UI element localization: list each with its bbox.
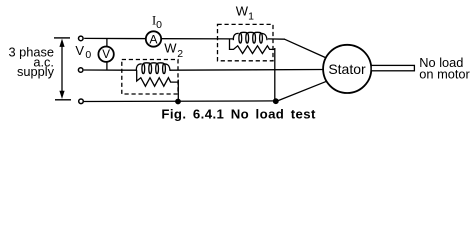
supply extent arrow top bar [54, 37, 70, 39]
W2 pressure coil resistor [137, 70, 179, 86]
wire: middle line from W2 coil to stator [170, 69, 324, 72]
W1 pressure coil resistor [230, 39, 275, 54]
wattmeter W2 dashed box [122, 60, 178, 95]
rotor shaft [371, 65, 414, 70]
wattmeter W1 dashed box [218, 24, 274, 60]
junction dot W2-bottom [175, 99, 181, 105]
wire: top diagonal into stator [285, 39, 328, 58]
W2 current coil [136, 63, 170, 74]
terminal top (R phase) [79, 36, 84, 41]
svg-text:on motor: on motor [419, 67, 470, 82]
W1 pressure coil drop wire [274, 48, 276, 101]
wire: top line from terminal to W1 coil [84, 37, 233, 40]
W1 current coil [233, 32, 267, 43]
wire: top line from W1 coil to bend [268, 38, 285, 40]
wire: middle line from terminal to W2 coil [84, 69, 137, 71]
svg-text:A: A [149, 32, 158, 46]
junction dot W1-bottom [273, 98, 279, 104]
voltmeter stem bottom [106, 62, 108, 70]
supply extent double arrow [59, 39, 64, 99]
terminal middle (Y phase) [78, 68, 83, 73]
svg-text:supply: supply [17, 64, 55, 79]
voltmeter V [98, 47, 113, 62]
W2 pressure coil drop wire [177, 80, 179, 102]
voltmeter stem top [106, 38, 108, 46]
ammeter A [146, 31, 161, 46]
wire: bottom line from terminal to bend [84, 100, 278, 103]
svg-text:Stator: Stator [328, 61, 366, 77]
stator circle [323, 45, 371, 93]
supply extent arrow bottom bar [55, 99, 71, 101]
terminal bottom (B phase) [79, 99, 84, 104]
svg-text:Fig. 6.4.1 No load test: Fig. 6.4.1 No load test [161, 106, 316, 121]
svg-text:V: V [102, 48, 110, 61]
wire: bottom diagonal into stator [278, 81, 327, 101]
